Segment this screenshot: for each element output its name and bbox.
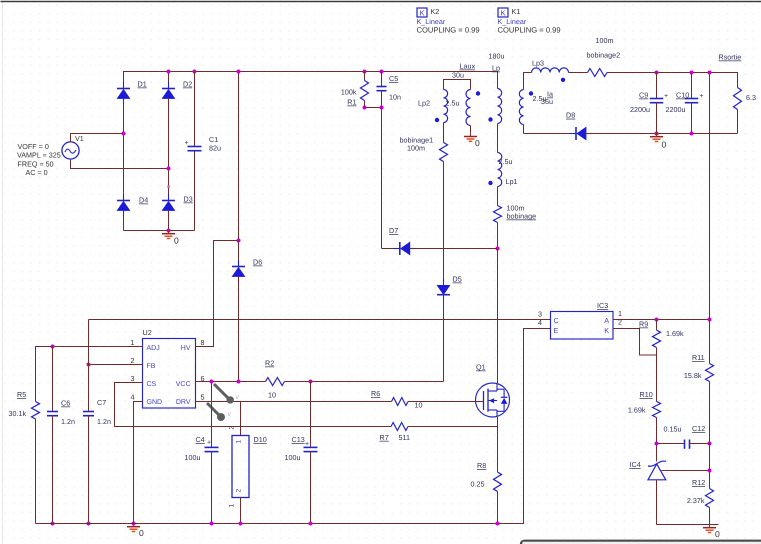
svg-text:0.25: 0.25 — [471, 479, 485, 488]
svg-text:C10: C10 — [676, 91, 689, 100]
transistor Q1 — [476, 383, 510, 417]
wire FB rail — [89, 319, 551, 321]
ground 0 main — [133, 524, 135, 527]
resistor R12 — [706, 489, 714, 508]
tl431 IC4 — [648, 461, 666, 480]
wire D10 bottom — [240, 498, 242, 524]
svg-text:K2: K2 — [431, 7, 440, 16]
wire C13 bottom — [310, 452, 312, 524]
wire bottom right rail — [657, 524, 719, 526]
wire C5 top stub — [381, 72, 383, 87]
wire D5 to VCC corner — [443, 295, 445, 382]
svg-text:D10: D10 — [254, 435, 267, 444]
diode D6 — [238, 260, 240, 267]
ground 0 output — [656, 134, 658, 137]
svg-text:A: A — [604, 316, 609, 325]
wire C7 column — [88, 365, 90, 412]
diode D7 — [393, 248, 400, 250]
svg-text:VCC: VCC — [176, 381, 191, 388]
svg-text:1.2n: 1.2n — [97, 417, 111, 426]
wire FB rail drop — [88, 320, 90, 365]
capacitor C5 — [377, 86, 387, 88]
svg-text:10: 10 — [268, 391, 276, 400]
junction D6 rail — [237, 70, 241, 74]
wire secondary top corner — [524, 73, 532, 90]
wire R9 top stub — [656, 320, 658, 331]
wire IC3 A pin — [613, 319, 710, 321]
svg-text:C7: C7 — [97, 398, 106, 407]
svg-text:1: 1 — [236, 440, 243, 444]
phase dot Lp3 — [561, 78, 565, 82]
svg-text:1: 1 — [131, 338, 135, 347]
svg-text:IC4: IC4 — [630, 460, 641, 469]
wire Lp2 to bobinage1 — [443, 123, 445, 143]
svg-text:Lp3: Lp3 — [532, 58, 544, 67]
svg-text:C5: C5 — [389, 74, 398, 83]
diode D2 — [168, 82, 170, 89]
svg-text:K: K — [604, 326, 609, 335]
diode D3 — [168, 194, 170, 201]
junction C4 bottom — [210, 522, 214, 526]
wire D1 to D4 — [123, 99, 125, 201]
wire R8 bottom — [497, 492, 499, 524]
inductor Lp2 leakage — [444, 90, 448, 123]
svg-text:0: 0 — [715, 529, 720, 539]
svg-text:FB: FB — [147, 363, 156, 370]
svg-text:D7: D7 — [389, 226, 398, 235]
pin marker D3 — [167, 185, 170, 188]
svg-text:180u: 180u — [489, 52, 505, 61]
resistor R7 — [391, 423, 408, 431]
junction C10 bottom — [690, 132, 694, 136]
junction C5 top — [380, 70, 384, 74]
resistor R11 — [706, 364, 714, 382]
junction ref R12 — [708, 469, 712, 473]
wire HV tap to pin8 — [196, 241, 239, 347]
svg-text:VOFF = 0: VOFF = 0 — [18, 142, 49, 151]
svg-text:R11: R11 — [692, 353, 705, 362]
junction D7-primary — [496, 247, 500, 251]
svg-text:D5: D5 — [453, 275, 462, 284]
svg-text:V1: V1 — [75, 134, 84, 143]
svg-text:5: 5 — [201, 393, 205, 402]
phase dot Lp — [488, 117, 492, 121]
svg-text:1.69k: 1.69k — [666, 329, 684, 338]
svg-text:100k: 100k — [341, 88, 357, 97]
junction C10 top — [690, 71, 694, 75]
svg-text:Laux: Laux — [460, 62, 476, 71]
svg-text:Lp2: Lp2 — [418, 99, 430, 108]
svg-text:2.5u: 2.5u — [446, 99, 460, 108]
capacitor C4 — [205, 446, 219, 448]
svg-text:C1: C1 — [209, 135, 218, 144]
junction R1-C5 a — [363, 106, 367, 110]
junction R1 top — [363, 70, 367, 74]
capacitor C9 — [650, 98, 664, 100]
ground 0 right — [709, 525, 711, 528]
junction C13 bottom — [309, 522, 313, 526]
junction C12 left — [655, 442, 659, 446]
svg-text:2: 2 — [229, 426, 236, 430]
svg-text:511: 511 — [399, 433, 410, 442]
svg-text:C: C — [554, 316, 559, 325]
svg-text:v: v — [236, 394, 240, 401]
wire Laux pair top — [444, 80, 471, 90]
wire R10 to IC4 — [656, 418, 658, 462]
svg-text:0.15u: 0.15u — [664, 425, 682, 434]
junction D1-V1 — [122, 132, 126, 136]
svg-text:Rsortie: Rsortie — [719, 53, 742, 62]
svg-text:R7: R7 — [380, 433, 389, 442]
svg-text:D1: D1 — [138, 80, 147, 89]
svg-text:100u: 100u — [285, 453, 301, 462]
svg-text:U2: U2 — [143, 328, 152, 337]
svg-text:D8: D8 — [566, 111, 575, 120]
inductor Lp1 leakage — [498, 153, 502, 187]
svg-text:1.2n: 1.2n — [61, 417, 75, 426]
junction VCC C13 — [309, 380, 313, 384]
wire C6 bottom — [52, 416, 54, 524]
wire V1 top to bridge — [71, 134, 124, 143]
svg-text:COUPLING = 0.99: COUPLING = 0.99 — [417, 26, 480, 35]
svg-text:10n: 10n — [389, 92, 401, 101]
svg-text:Lp: Lp — [492, 64, 500, 73]
svg-text:R12: R12 — [692, 478, 705, 487]
svg-text:0: 0 — [139, 528, 144, 538]
junction C7 bottom — [87, 522, 91, 526]
ground 0 aux — [470, 133, 472, 136]
junction VCC C4 — [210, 380, 214, 384]
inductor Lp3 — [532, 68, 569, 73]
svg-text:4: 4 — [538, 318, 542, 327]
svg-text:0: 0 — [475, 138, 480, 148]
svg-text:bobinage2: bobinage2 — [587, 51, 621, 60]
wire DRV to R6 — [196, 401, 392, 403]
junction A R9 — [655, 318, 659, 322]
svg-text:K1: K1 — [512, 7, 521, 16]
svg-text:AC = 0: AC = 0 — [26, 168, 48, 177]
wire R6 to gate — [408, 401, 484, 403]
wire C13 column — [310, 382, 312, 448]
wire snubber down to D7 — [381, 91, 383, 249]
svg-text:v: v — [228, 411, 232, 418]
svg-text:R2: R2 — [265, 359, 274, 368]
wire VCC pin to R2 — [196, 381, 266, 383]
svg-text:100u: 100u — [185, 453, 201, 462]
junction C9 top — [655, 71, 659, 75]
wire R1 top stub — [364, 72, 366, 81]
resistor R8 — [494, 472, 502, 492]
svg-text:+: + — [664, 93, 668, 100]
svg-text:82u: 82u — [209, 144, 221, 153]
wire top rail HV — [124, 72, 498, 89]
wire C10 top stub — [691, 73, 693, 99]
wire C1 top stub — [194, 72, 196, 147]
resistor Rsortie — [734, 88, 742, 110]
svg-text:Lp1: Lp1 — [506, 177, 518, 186]
junction GND rail — [132, 522, 136, 526]
diode D4 — [123, 194, 125, 201]
inductor Laux — [466, 90, 471, 126]
resistor bobinage1 — [440, 143, 448, 162]
wire D7 left — [382, 248, 400, 250]
svg-text:30.1k: 30.1k — [9, 409, 27, 418]
phase dot secondary — [529, 91, 533, 95]
wire bridge bottom rail — [124, 230, 195, 232]
svg-text:1: 1 — [229, 504, 236, 508]
svg-text:2: 2 — [618, 318, 622, 327]
svg-text:+: + — [207, 439, 211, 446]
wire C4 column — [211, 382, 213, 448]
junction FB C7 — [87, 363, 91, 367]
svg-text:R10: R10 — [640, 390, 653, 399]
junction C1 top — [193, 70, 197, 74]
svg-text:R9: R9 — [639, 320, 648, 329]
svg-text:C12: C12 — [692, 424, 705, 433]
diode D5 — [443, 279, 445, 286]
wire IC3 K pin — [613, 329, 657, 356]
capacitor C1 — [188, 146, 202, 148]
wire R7 to source — [408, 426, 498, 428]
capacitor C7 — [83, 411, 94, 413]
capacitor C13 — [304, 446, 318, 448]
left faint border — [2, 3, 4, 544]
wire D2 stub — [168, 72, 170, 89]
svg-text:2200u: 2200u — [630, 105, 650, 114]
svg-text:+: + — [185, 140, 189, 147]
junction bridge ground — [167, 229, 171, 233]
ic U2 box — [143, 339, 196, 409]
coupling K1 symbol — [498, 8, 508, 17]
svg-text:2.37k: 2.37k — [687, 496, 705, 505]
wire output top rail — [607, 73, 738, 88]
wire D6 column top — [238, 72, 240, 267]
diode D8 — [570, 133, 577, 135]
svg-text:D3: D3 — [184, 195, 193, 204]
wire C7 bottom — [88, 416, 90, 524]
junction C12 right — [708, 442, 712, 446]
wire IC4 anode down — [656, 480, 658, 525]
svg-text:2: 2 — [236, 489, 243, 493]
junction VCC D6 — [237, 380, 241, 384]
wire bobinage1 to D5 — [443, 162, 445, 286]
junction D10 bottom — [239, 522, 243, 526]
svg-text:D2: D2 — [183, 80, 192, 89]
svg-text:Q1: Q1 — [476, 363, 486, 372]
capacitor C6 — [47, 411, 58, 413]
wire secondary to D8 — [524, 133, 577, 135]
wire D4 to bottom — [123, 211, 125, 231]
wire R1 bottom — [365, 101, 382, 108]
wire D6 to VCC — [238, 277, 240, 382]
resistor R2 — [266, 378, 285, 386]
resistor bobinage — [494, 206, 502, 223]
svg-text:100m: 100m — [596, 36, 614, 45]
junction C6 bottom — [51, 522, 55, 526]
wire secondary bottom — [523, 125, 525, 134]
wire pin2 FB net — [89, 364, 143, 366]
wire C1 bottom stub — [194, 152, 196, 231]
wire C9 top stub — [656, 73, 658, 99]
phase dot Laux — [476, 91, 480, 95]
wire Lp3 to bobinage2 — [569, 72, 588, 74]
resistor R1 — [361, 81, 369, 101]
wire bottom rail — [36, 329, 551, 524]
svg-text:bobinage: bobinage — [507, 212, 537, 221]
junction C6 top — [51, 345, 55, 349]
wire V1 bottom to bridge — [71, 160, 169, 169]
capacitor C10 — [685, 98, 699, 100]
svg-text:+: + — [700, 93, 704, 100]
wire C6 column — [52, 347, 54, 412]
wire Laux to ground — [470, 126, 472, 134]
wire D7 right — [410, 248, 498, 250]
svg-text:Ia: Ia — [547, 90, 553, 99]
capacitor C12 — [684, 440, 686, 449]
junction D2-V1 — [167, 167, 171, 171]
wire R9 to R10 — [656, 348, 658, 402]
wire C9 bottom stub — [656, 103, 658, 134]
svg-text:R5: R5 — [17, 390, 26, 399]
svg-text:R6: R6 — [371, 389, 380, 398]
svg-text:C4: C4 — [196, 435, 205, 444]
svg-text:CS: CS — [147, 381, 157, 388]
svg-text:3: 3 — [131, 374, 135, 383]
svg-text:0: 0 — [662, 140, 667, 150]
wire C12 left stub — [657, 443, 685, 445]
svg-text:C13: C13 — [292, 435, 305, 444]
wire C12 to R12 — [709, 444, 711, 489]
probe V on VCC — [214, 384, 228, 398]
svg-text:15.8k: 15.8k — [684, 371, 702, 380]
junction D2 top — [167, 70, 171, 74]
svg-text:GND: GND — [147, 399, 163, 406]
wire R2 to D5 corner — [285, 381, 444, 383]
svg-text:D6: D6 — [253, 258, 262, 267]
coupling K2 symbol — [417, 8, 427, 17]
voltage source V1 — [62, 142, 79, 159]
wire R5 bottom — [35, 419, 37, 524]
svg-text:30u: 30u — [452, 71, 464, 80]
junction R8 bottom — [496, 522, 500, 526]
svg-text:COUPLING = 0.99: COUPLING = 0.99 — [498, 26, 561, 35]
window frame bottom right — [521, 541, 761, 544]
svg-text:IC3: IC3 — [597, 301, 608, 310]
wire C12 right stub — [690, 443, 710, 445]
wire pin1 ADJ net — [36, 347, 143, 402]
resistor R10 — [653, 402, 661, 418]
diode D10 box — [232, 436, 249, 498]
wire C10 bottom stub — [691, 103, 693, 134]
phase dot Lp1 — [488, 181, 492, 185]
optocoupler IC3 box — [551, 312, 614, 340]
svg-text:ADJ: ADJ — [147, 345, 160, 352]
wire D2 to D3 — [168, 99, 170, 201]
svg-text:E: E — [554, 326, 559, 335]
svg-text:100m: 100m — [407, 144, 425, 153]
wire D8 to output gnd — [586, 133, 738, 135]
svg-text:6.3: 6.3 — [746, 93, 756, 102]
ground 0 bridge — [168, 231, 170, 234]
wire D10 top — [240, 402, 242, 436]
wire Rsortie bottom — [737, 110, 739, 134]
junction output gnd — [655, 132, 659, 136]
junction R1-C5 b — [380, 106, 384, 110]
svg-text:C6: C6 — [61, 399, 70, 408]
resistor R6 — [392, 398, 409, 406]
svg-text:2200u: 2200u — [666, 105, 686, 114]
wire output sense column — [709, 73, 711, 364]
svg-text:2.5u: 2.5u — [499, 157, 513, 166]
inductor Lp — [498, 89, 502, 124]
resistor R5 — [32, 402, 40, 420]
svg-text:D4: D4 — [139, 196, 148, 205]
junction D6 HV tap — [237, 239, 241, 243]
wire bobinage to drain — [497, 223, 499, 384]
wire pin3 CS net — [115, 383, 392, 427]
svg-text:DRV: DRV — [176, 399, 191, 406]
svg-text:VAMPL = 325: VAMPL = 325 — [17, 151, 61, 160]
svg-text:C9: C9 — [639, 91, 648, 100]
wire source to R8 — [497, 417, 499, 472]
wire Lp to Lp1 — [497, 124, 499, 153]
wire R12 bottom — [709, 508, 711, 525]
wire IC4 ref — [662, 470, 710, 472]
diode D1 — [123, 82, 125, 89]
svg-text:0: 0 — [174, 236, 179, 246]
wire R11 to C12 — [709, 382, 711, 444]
wire Lp1 to bobinage — [497, 187, 499, 206]
wire pin4 GND net — [134, 402, 143, 524]
resistor bobinage2 — [588, 69, 608, 77]
svg-text:R8: R8 — [477, 461, 486, 470]
wire C4 bottom — [211, 452, 213, 524]
wire D3 to bottom — [168, 211, 170, 231]
svg-text:HV: HV — [181, 345, 191, 352]
svg-text:R1: R1 — [347, 98, 356, 107]
svg-text:1.69k: 1.69k — [628, 406, 646, 415]
svg-text:2: 2 — [131, 356, 135, 365]
junction sense top — [708, 71, 712, 75]
junction A output — [708, 318, 712, 322]
svg-text:+: + — [305, 441, 309, 448]
resistor R9 — [653, 330, 661, 348]
phase dot Lp2 — [435, 118, 439, 122]
svg-text:4: 4 — [131, 393, 135, 402]
top border line — [1, 1, 761, 3]
svg-text:8: 8 — [201, 338, 205, 347]
probe V on DRV — [207, 403, 219, 415]
inductor secondary 36u — [519, 90, 523, 125]
